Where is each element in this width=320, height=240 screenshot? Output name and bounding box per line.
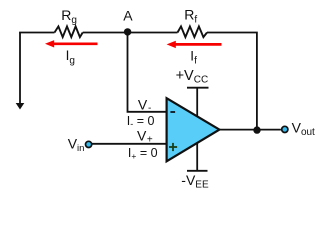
wire node A down to inverting input bbox=[128, 33, 167, 112]
resistor Rg bbox=[55, 26, 83, 37]
wire between Rg and Rf (through node A) bbox=[83, 32, 178, 34]
wire op-amp output bbox=[219, 129, 281, 131]
power -VEE stem bbox=[196, 141, 198, 171]
current arrow If bbox=[167, 41, 222, 48]
node A bbox=[124, 28, 131, 35]
terminal Vout bbox=[282, 126, 288, 132]
op-amp inverting input marker (-) bbox=[170, 111, 175, 113]
wire Rf to top-right corner and down to output bbox=[207, 33, 257, 130]
wire Vin to non-inverting input bbox=[91, 143, 166, 145]
power +VCC rail bar bbox=[187, 87, 209, 89]
power +VCC stem bbox=[196, 88, 198, 118]
op-amp U1 triangle bbox=[167, 98, 220, 161]
wire top-left horizontal bbox=[19, 32, 54, 34]
resistor Rf bbox=[178, 26, 208, 37]
current arrow Ig bbox=[45, 40, 98, 47]
wire left vertical with input arrow bbox=[16, 33, 25, 110]
terminal Vin bbox=[86, 141, 92, 147]
junction on output bbox=[253, 126, 260, 133]
op-amp non-inverting input marker (+) bbox=[169, 143, 177, 151]
power -VEE rail bar bbox=[187, 170, 208, 172]
svg-text:A: A bbox=[123, 8, 133, 24]
